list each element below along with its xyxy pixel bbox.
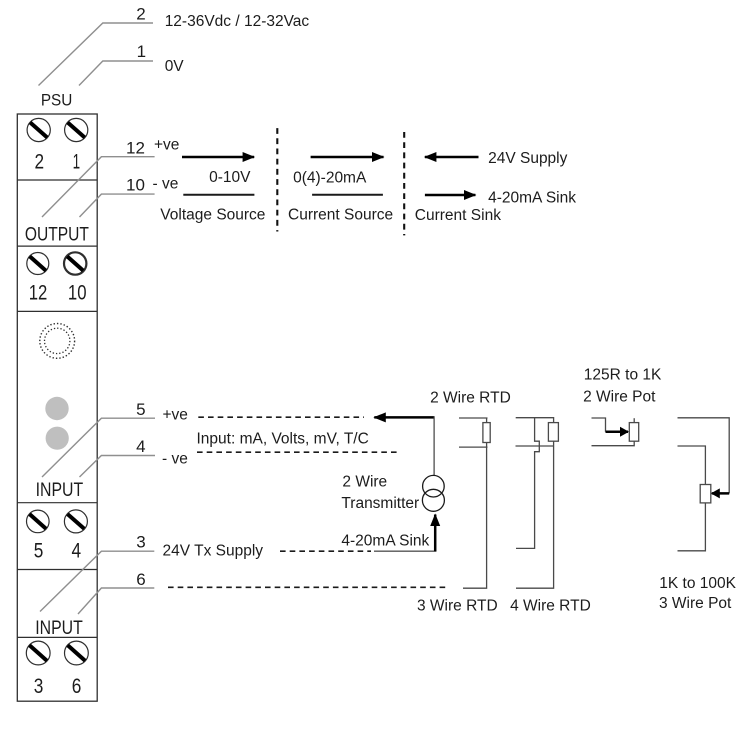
label +ve output [154, 136, 179, 153]
svg-text:Transmitter: Transmitter [341, 495, 419, 512]
label 2 Wire [342, 474, 387, 491]
terminal number 6 [72, 675, 82, 698]
label -ve output [153, 176, 179, 193]
label 24V Tx Supply [163, 543, 264, 560]
PSU label [41, 90, 73, 109]
INPUT label lower [35, 618, 83, 639]
label 2 Wire Pot [583, 388, 656, 405]
label 125R to 1K [584, 366, 662, 383]
terminal screw 4 [64, 510, 87, 533]
wire pin 6 [78, 588, 154, 614]
svg-text:5: 5 [136, 400, 145, 419]
svg-text:Current Sink: Current Sink [415, 207, 501, 224]
label -ve input [162, 450, 188, 467]
transmitter arrow to +ve [374, 416, 434, 476]
terminal screw 1 [65, 118, 88, 141]
label 1K to 100K [659, 575, 736, 592]
OUTPUT label [25, 225, 89, 246]
terminal screw 10 [64, 252, 86, 274]
svg-text:6: 6 [136, 570, 145, 589]
wire pin 1 [79, 61, 153, 86]
pin label 6 [136, 570, 145, 589]
svg-text:- ve: - ve [153, 176, 179, 193]
svg-text:Input: mA, Volts, mV, T/C: Input: mA, Volts, mV, T/C [197, 430, 369, 447]
svg-text:- ve: - ve [162, 450, 188, 467]
label 24V Supply [488, 150, 568, 167]
pin label 3 [136, 532, 145, 551]
terminal screw 6 [65, 641, 89, 665]
underline 0-10V [183, 194, 254, 196]
label 2 Wire RTD [430, 390, 511, 407]
terminal screw 3 [26, 641, 50, 665]
label Current Sink [415, 207, 501, 224]
svg-text:INPUT: INPUT [36, 480, 84, 501]
2 wire RTD resistor [483, 423, 490, 443]
terminal screw 5 [27, 510, 50, 533]
label Transmitter [341, 495, 419, 512]
label Current Source [288, 206, 393, 223]
arrow 0(4)-20mA source [311, 156, 384, 159]
svg-text:0V: 0V [165, 58, 185, 75]
terminal screw 2 [27, 118, 50, 141]
svg-text:5: 5 [34, 540, 44, 563]
terminal number 10 [68, 281, 87, 304]
label 4-20mA Sink input [341, 533, 429, 550]
svg-text:2 Wire Pot: 2 Wire Pot [583, 388, 656, 405]
svg-text:6: 6 [72, 675, 82, 698]
svg-text:2: 2 [35, 150, 45, 173]
pin label 4 [136, 437, 145, 456]
wire pin 3 [40, 551, 154, 611]
svg-text:0-10V: 0-10V [209, 169, 251, 186]
svg-text:3: 3 [34, 675, 44, 698]
wire pin 10 [80, 194, 155, 217]
svg-text:4-20mA Sink: 4-20mA Sink [488, 189, 576, 206]
svg-text:4: 4 [136, 437, 145, 456]
INPUT label upper [36, 480, 84, 501]
svg-text:3 Wire Pot: 3 Wire Pot [659, 595, 732, 612]
dashed wire pin 5 [198, 416, 364, 418]
adjustment trimmer (dotted circles) [40, 324, 75, 359]
3 wire pot circuit [678, 418, 730, 551]
svg-text:Current Source: Current Source [288, 206, 393, 223]
svg-text:12: 12 [29, 281, 48, 304]
svg-text:12: 12 [126, 138, 145, 157]
svg-text:1: 1 [137, 42, 146, 61]
wire pin 4 [80, 456, 156, 478]
terminal block body [17, 114, 97, 701]
terminal number 2 [35, 150, 45, 173]
dashed separator 2 [403, 132, 405, 235]
dashed wire pin 4 [197, 451, 399, 453]
pin label 10 [126, 176, 145, 195]
svg-text:10: 10 [126, 176, 145, 195]
arrow 0-10V source [182, 156, 254, 159]
svg-text:+ve: +ve [163, 406, 188, 423]
arrow 4-20mA sink up [434, 515, 437, 552]
svg-text:3 Wire RTD: 3 Wire RTD [417, 598, 498, 615]
label 0-10V [209, 169, 251, 186]
terminal number 1 [73, 150, 81, 173]
pin label 12 [126, 138, 145, 157]
label 12-36Vdc [165, 13, 310, 30]
2 wire RTD circuit [459, 418, 488, 588]
terminal number 4 [72, 540, 82, 563]
svg-text:4 Wire RTD: 4 Wire RTD [510, 598, 591, 615]
underline 0(4)-20mA [312, 194, 383, 196]
wire pin 5 [42, 418, 155, 477]
pin label 2 [136, 5, 145, 24]
svg-text:10: 10 [68, 281, 87, 304]
2 wire transmitter symbol [422, 475, 444, 511]
terminal number 12 [29, 281, 48, 304]
label Voltage Source [160, 206, 265, 223]
svg-text:PSU: PSU [41, 90, 73, 109]
terminal number 5 [34, 540, 44, 563]
dashed wire pin 6 [168, 586, 447, 588]
svg-text:+ve: +ve [154, 136, 179, 153]
arrow 4-20mA sink (right) [425, 194, 476, 197]
label 3 Wire Pot [659, 595, 732, 612]
3 wire pot resistor [700, 485, 711, 503]
svg-text:3: 3 [136, 532, 145, 551]
svg-text:12-36Vdc / 12-32Vac: 12-36Vdc / 12-32Vac [165, 13, 310, 30]
svg-text:INPUT: INPUT [35, 618, 83, 639]
label 0(4)-20mA [293, 170, 367, 187]
arrow 24V supply (left) [425, 156, 479, 159]
wire to transmitter bottom [374, 550, 436, 552]
svg-text:2: 2 [136, 5, 145, 24]
label 0V [165, 58, 185, 75]
svg-text:4: 4 [72, 540, 82, 563]
3 wire pot wiper arrow [712, 492, 729, 495]
LED indicator upper [45, 397, 68, 420]
label 4 Wire RTD [510, 598, 591, 615]
4 wire RTD circuit [516, 418, 554, 589]
svg-text:1: 1 [73, 150, 81, 173]
dashed separator 1 [276, 128, 278, 231]
svg-text:1K to 100K: 1K to 100K [659, 575, 736, 592]
4 wire RTD resistor [548, 423, 558, 442]
wire pin 12 [42, 157, 155, 217]
terminal number 3 [34, 675, 44, 698]
dashed wire pin 3 [280, 550, 371, 552]
terminal screw 12 [27, 253, 49, 275]
2 wire pot wiper arrow [606, 430, 629, 433]
pin label 1 [137, 42, 146, 61]
label +ve input [163, 406, 188, 423]
svg-text:4-20mA Sink: 4-20mA Sink [341, 533, 429, 550]
svg-text:2 Wire: 2 Wire [342, 474, 387, 491]
label 3 Wire RTD [417, 598, 498, 615]
wire pin 2 [39, 23, 154, 86]
svg-text:2 Wire RTD: 2 Wire RTD [430, 390, 511, 407]
label Input types [197, 430, 369, 447]
svg-text:24V Tx Supply: 24V Tx Supply [163, 543, 264, 560]
svg-text:OUTPUT: OUTPUT [25, 225, 89, 246]
svg-text:125R to 1K: 125R to 1K [584, 366, 662, 383]
section divider wires [17, 180, 97, 637]
2 wire pot circuit [592, 418, 635, 446]
LED indicator lower [46, 427, 69, 450]
pin label 5 [136, 400, 145, 419]
2 wire pot resistor [629, 423, 638, 442]
svg-text:24V Supply: 24V Supply [488, 150, 568, 167]
svg-text:0(4)-20mA: 0(4)-20mA [293, 170, 367, 187]
label 4-20mA Sink top [488, 189, 576, 206]
svg-text:Voltage Source: Voltage Source [160, 206, 265, 223]
